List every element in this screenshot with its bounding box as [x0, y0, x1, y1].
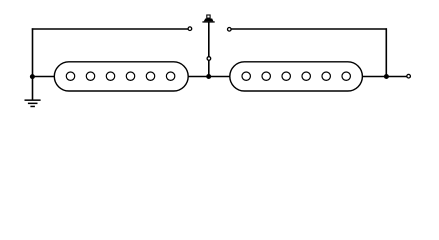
- wire pickup P2 to output: [363, 76, 407, 78]
- pickup P2 pole pieces: [242, 72, 350, 80]
- switch SW1 lever knob symbol: [202, 15, 214, 23]
- wire switch common stem: [208, 22, 210, 76]
- wire top-right horizontal from switch terminal 2: [231, 28, 387, 30]
- node C junction dot right: [384, 74, 389, 79]
- node A junction dot left bus: [30, 74, 35, 79]
- wire left vertical bus: [32, 28, 34, 100]
- node B junction dot center: [206, 74, 211, 79]
- pickup P1 body: [54, 62, 188, 91]
- terminal open circle on switch common stem: [207, 57, 211, 61]
- pickup P1 pole pieces: [66, 72, 175, 80]
- wire top-left horizontal from left bus to switch terminal 1: [32, 28, 188, 30]
- wire left bus to pickup P1: [33, 76, 55, 78]
- ground: [25, 99, 41, 107]
- output jack terminal open circle: [407, 74, 411, 78]
- wire pickup P1 to center node: [188, 76, 209, 78]
- wire center node to pickup P2: [209, 76, 230, 78]
- switch SW1 terminal 2 open circle: [228, 28, 232, 32]
- pickup P2 body: [230, 62, 363, 91]
- wire right vertical drop: [385, 28, 387, 76]
- switch SW1 terminal 1 open circle: [188, 27, 192, 31]
